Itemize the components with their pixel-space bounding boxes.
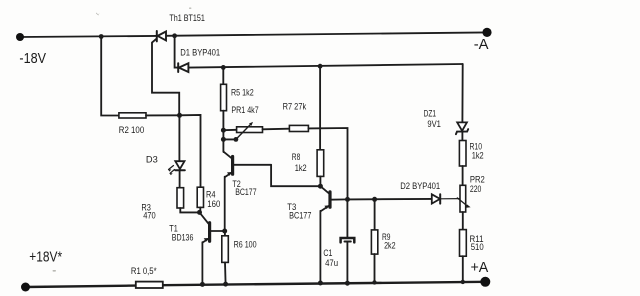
svg-text:BC177: BC177	[289, 210, 311, 220]
svg-text:R1 0,5*: R1 0,5*	[131, 266, 157, 276]
resistor R5 1k2	[221, 84, 227, 110]
svg-text:DZ1: DZ1	[424, 109, 437, 119]
wire: D1 anode to right column corner	[188, 64, 462, 68]
node: R8 / T2 base / T3 collector	[318, 184, 323, 189]
wire: node down to D3	[178, 115, 180, 161]
wire: node to R4 top	[180, 115, 201, 187]
potentiometer PR1 4k7	[223, 122, 262, 142]
svg-text:1k2: 1k2	[295, 163, 307, 173]
node: PR1 wiper tie	[221, 137, 226, 142]
svg-text:9V1: 9V1	[427, 119, 441, 129]
svg-text:1k2: 1k2	[472, 150, 484, 160]
terminal -18V	[16, 33, 24, 41]
svg-text:R7 27k: R7 27k	[283, 102, 307, 112]
terminal -A	[482, 28, 491, 37]
wire: R2 branch vertical	[101, 37, 119, 116]
resistor R3 470	[177, 188, 184, 208]
resistor R4 160	[197, 187, 203, 207]
wire: R7 right, over R8 branch, down to T3 base node	[308, 128, 347, 199]
wire: R8 bottom to node	[319, 176, 321, 186]
svg-text:BD136: BD136	[172, 233, 194, 243]
resistor R1 0,5*	[136, 282, 163, 288]
svg-text:47u: 47u	[325, 258, 338, 268]
node: rail / T3 emitter	[318, 281, 323, 286]
node: T3 base wire / R9	[372, 197, 377, 202]
wire: right column from top corner down to DZ1	[461, 64, 463, 122]
node: junction top rail / R2 branch	[99, 34, 104, 39]
svg-text:R8: R8	[292, 152, 301, 162]
svg-text:+A: +A	[471, 259, 489, 276]
svg-text:R5 1k2: R5 1k2	[231, 88, 254, 98]
node: D1 wire / R5	[221, 65, 226, 70]
wire: R4 bottom to node	[199, 207, 201, 212]
resistor R10 1k2	[459, 141, 466, 167]
wire: PR2 to R11	[462, 212, 464, 230]
svg-text:BC177: BC177	[235, 187, 256, 197]
wire: PR1 right to R7	[263, 128, 290, 131]
wire: R10 to PR2	[462, 166, 464, 185]
LED D3	[168, 161, 185, 175]
svg-text:160: 160	[207, 199, 220, 209]
svg-text:510: 510	[471, 242, 484, 252]
thyristor Th1 BT151	[152, 31, 179, 115]
transistor T2 BC177	[223, 152, 271, 232]
node: rail / R11	[461, 280, 465, 284]
diode D2 BYP401	[432, 194, 460, 203]
node: R3/R4/T1 collector	[197, 210, 202, 215]
svg-text:C1: C1	[323, 248, 332, 258]
wire: bottom +18V rail	[26, 286, 136, 287]
wire: DZ1 to R10	[461, 132, 463, 141]
svg-text:Th1 BT151: Th1 BT151	[169, 13, 205, 23]
wire: R2 to node	[146, 114, 180, 116]
svg-text:220: 220	[470, 184, 482, 194]
wire: top negative rail from -18V to -A	[20, 36, 157, 37]
capacitor C1 47u	[341, 199, 355, 283]
wire: T2 base to T3 collector node	[271, 165, 320, 186]
node: D1 wire / R8 branch	[318, 64, 323, 69]
diode D1 BYP401	[178, 63, 188, 72]
node: PR1 left	[221, 128, 226, 133]
wire: D3 to R3	[179, 170, 181, 187]
resistor R6 100	[222, 231, 229, 284]
resistor R7 27k	[289, 125, 308, 131]
node: T1 base / T2 emitter / R6	[222, 229, 227, 234]
resistor R8 1k2	[317, 150, 324, 177]
wire: R11 to +18V rail	[462, 256, 464, 282]
node: junction top rail / D1 branch	[172, 33, 177, 38]
zener diode DZ1 9V1	[456, 122, 468, 134]
transistor T1 BD136	[200, 212, 225, 284]
resistor R9 2k2	[371, 199, 377, 282]
node: T3 base / R7 / C1	[345, 197, 350, 202]
svg-text:PR1 4k7: PR1 4k7	[231, 105, 258, 115]
svg-text:470: 470	[143, 211, 156, 221]
terminal +A	[480, 277, 490, 287]
wire: R8 branch from top	[319, 66, 321, 150]
svg-text:D1 BYP401: D1 BYP401	[180, 48, 220, 58]
terminal +18V	[21, 283, 30, 292]
svg-text:+18V*: +18V*	[29, 248, 62, 265]
node: rail / R6	[223, 282, 228, 287]
node: rail / C1	[345, 281, 350, 286]
resistor R11 510	[460, 230, 467, 257]
resistor R2 100	[119, 113, 146, 118]
transistor T3 BC177	[320, 186, 347, 283]
wire: T3 base to D2	[348, 198, 432, 201]
svg-text:-18V: -18V	[19, 50, 46, 67]
node: rail / T1 emitter	[200, 282, 205, 287]
svg-text:-A: -A	[474, 36, 489, 53]
svg-text:D2 BYP401: D2 BYP401	[400, 181, 440, 191]
wire: D1 cathode up to top rail	[175, 36, 179, 68]
node: rail / R9	[372, 280, 376, 284]
wire: R3 bottom to node	[180, 208, 199, 212]
svg-text:R2 100: R2 100	[119, 125, 144, 135]
wire: R5 bottom to PR1 nodes	[222, 111, 224, 152]
node: R2 / D3 / gate / R4	[177, 113, 182, 118]
svg-text:D3: D3	[146, 155, 158, 165]
wire: R5 from D1 node	[222, 67, 224, 84]
potentiometer PR2 220	[457, 185, 470, 212]
svg-text:2k2: 2k2	[384, 241, 396, 251]
svg-text:R6 100: R6 100	[234, 239, 257, 249]
